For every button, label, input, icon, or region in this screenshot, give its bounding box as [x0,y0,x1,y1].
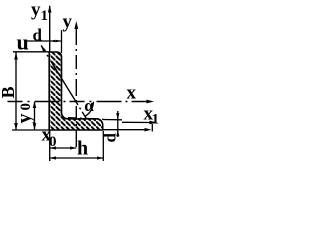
svg-text:y: y [31,0,41,21]
svg-text:1: 1 [41,8,49,24]
svg-text:α: α [84,96,94,115]
svg-text:1: 1 [152,112,160,128]
svg-text:h: h [77,138,88,160]
svg-text:x: x [127,83,137,104]
svg-text:d: d [101,133,120,143]
svg-text:y: y [14,114,36,124]
svg-text:u: u [17,30,29,55]
svg-text:0: 0 [49,134,57,150]
svg-text:d: d [33,26,43,45]
svg-text:0: 0 [18,103,34,111]
svg-text:y: y [63,12,73,33]
svg-text:B: B [0,86,18,98]
